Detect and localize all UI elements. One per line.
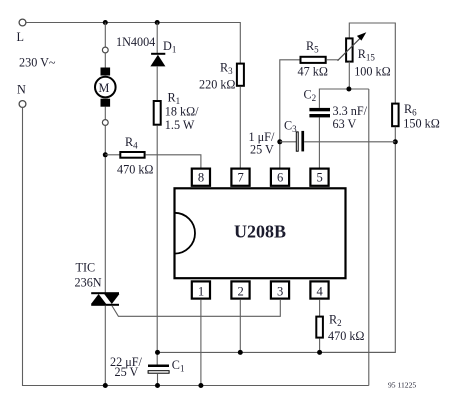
pin 4 <box>310 281 328 298</box>
wire N line down and bottom rail <box>23 107 369 385</box>
wire C1 bottom <box>157 374 159 386</box>
node junction mid rail pin2 <box>238 350 243 355</box>
terminal L <box>19 19 26 26</box>
IC notch <box>175 213 195 254</box>
wire motor brush to connector <box>104 107 106 120</box>
pin 1 <box>192 281 210 298</box>
wire pin 1 drop <box>200 300 202 386</box>
svg-text:1N4004: 1N4004 <box>116 35 155 49</box>
svg-text:95 11225: 95 11225 <box>388 380 416 389</box>
wire mid rail <box>158 351 396 353</box>
svg-text:8: 8 <box>198 171 204 185</box>
node junction mid rail C1 <box>155 350 160 355</box>
svg-text:100 kΩ: 100 kΩ <box>354 64 390 78</box>
wire diode to R1 <box>156 66 158 101</box>
wire R3 to pin 7 <box>239 87 241 168</box>
wire R3 branch down from top rail <box>239 22 241 63</box>
resistor R2 <box>316 317 323 338</box>
svg-text:M: M <box>99 81 110 95</box>
resistor R5 <box>301 57 326 63</box>
svg-text:U208B: U208B <box>234 222 286 242</box>
wire pin 4 drop to R2 <box>319 300 321 316</box>
pin 8 <box>192 169 210 186</box>
wire R2 bottom <box>319 339 321 353</box>
diode D1 <box>150 53 165 67</box>
resistor R15 <box>346 38 353 61</box>
svg-text:L: L <box>17 30 24 44</box>
wire R15 top to corner <box>349 23 395 103</box>
resistor R1 <box>154 101 161 125</box>
wire C2 top net <box>319 89 368 108</box>
pin 5 <box>310 169 328 186</box>
svg-text:470 kΩ: 470 kΩ <box>328 329 364 343</box>
svg-text:230 V~: 230 V~ <box>19 56 56 70</box>
capacitor C2 <box>309 108 330 118</box>
wire motor line to R4 <box>105 154 120 156</box>
svg-text:2: 2 <box>238 284 244 298</box>
potentiometer R15 wiper arrow <box>338 32 367 61</box>
motor M bottom brush <box>101 99 111 107</box>
svg-text:4: 4 <box>317 284 324 298</box>
svg-text:470 kΩ: 470 kΩ <box>117 162 153 176</box>
svg-text:1 μF/: 1 μF/ <box>249 130 275 144</box>
svg-text:236N: 236N <box>75 276 102 290</box>
connector circle above motor <box>102 47 108 53</box>
wire C3 to R6 junction <box>304 141 395 143</box>
svg-text:N: N <box>17 83 26 97</box>
svg-text:220 kΩ: 220 kΩ <box>199 78 235 92</box>
wire right riser R15 net to bottom rail <box>368 89 370 386</box>
svg-text:5: 5 <box>317 171 323 185</box>
wire pin 6 riser to R5 <box>280 60 300 168</box>
node junction top motor branch <box>103 20 108 25</box>
resistor R6 <box>392 104 399 127</box>
wire R15 bottom to junction <box>348 62 350 89</box>
wire connector to motor brush <box>104 53 106 68</box>
svg-text:1.5 W: 1.5 W <box>165 118 195 132</box>
node junction bottom pin1 <box>198 383 203 388</box>
node junction R6 C3 net <box>393 139 398 144</box>
wire motor branch upper <box>104 23 106 48</box>
wire R5 to R15 wiper <box>327 59 339 61</box>
pin 6 <box>271 169 289 186</box>
node junction bottom triac <box>103 383 108 388</box>
svg-text:18 kΩ/: 18 kΩ/ <box>165 104 199 118</box>
svg-text:25 V: 25 V <box>250 143 274 157</box>
svg-text:63 V: 63 V <box>333 117 357 131</box>
node junction mid rail R2 <box>317 350 322 355</box>
svg-text:3: 3 <box>277 284 283 298</box>
svg-text:47 kΩ: 47 kΩ <box>298 64 328 78</box>
wire pin6 node to C3 <box>280 141 296 143</box>
svg-text:25 V: 25 V <box>115 365 139 379</box>
wire C2 bottom to pin 5 <box>318 117 320 168</box>
connector circle below motor <box>102 120 108 126</box>
node junction bottom C1 <box>155 383 160 388</box>
capacitor C1 <box>148 365 169 374</box>
capacitor C3 <box>296 131 304 152</box>
resistor R4 <box>120 152 144 158</box>
triac TIC236N <box>91 292 119 306</box>
wire pin 2 drop <box>239 300 241 353</box>
wire R4 to pin 8 <box>146 155 201 168</box>
wire motor to triac <box>104 125 106 292</box>
svg-text:6: 6 <box>277 171 283 185</box>
pin 7 <box>231 169 249 186</box>
terminal N <box>19 101 26 108</box>
wire R6 bottom down to mid rail <box>320 127 396 353</box>
svg-text:150 kΩ: 150 kΩ <box>403 117 439 131</box>
wire top rail from L to R3 corner <box>26 22 240 24</box>
node junction top D1 branch <box>155 20 160 25</box>
motor M body <box>95 77 116 98</box>
pin 3 <box>271 281 289 298</box>
IC U208B body <box>175 188 346 278</box>
svg-text:3.3 nF/: 3.3 nF/ <box>333 104 368 118</box>
node junction pin6 C3 <box>277 139 282 144</box>
wire top to diode D1 <box>156 23 158 54</box>
pin 2 <box>231 281 249 298</box>
wire triac gate to pin 3 <box>112 300 280 316</box>
resistor R3 <box>237 64 244 86</box>
svg-text:1: 1 <box>198 284 204 298</box>
node junction R15 bottom C2 <box>346 87 351 92</box>
node junction R4 tee <box>103 152 108 157</box>
svg-text:TIC: TIC <box>76 261 96 275</box>
wire R1 down to C1 <box>156 126 158 365</box>
motor M top brush <box>101 68 111 76</box>
wire triac to bottom rail <box>104 306 106 386</box>
svg-text:7: 7 <box>238 171 244 185</box>
